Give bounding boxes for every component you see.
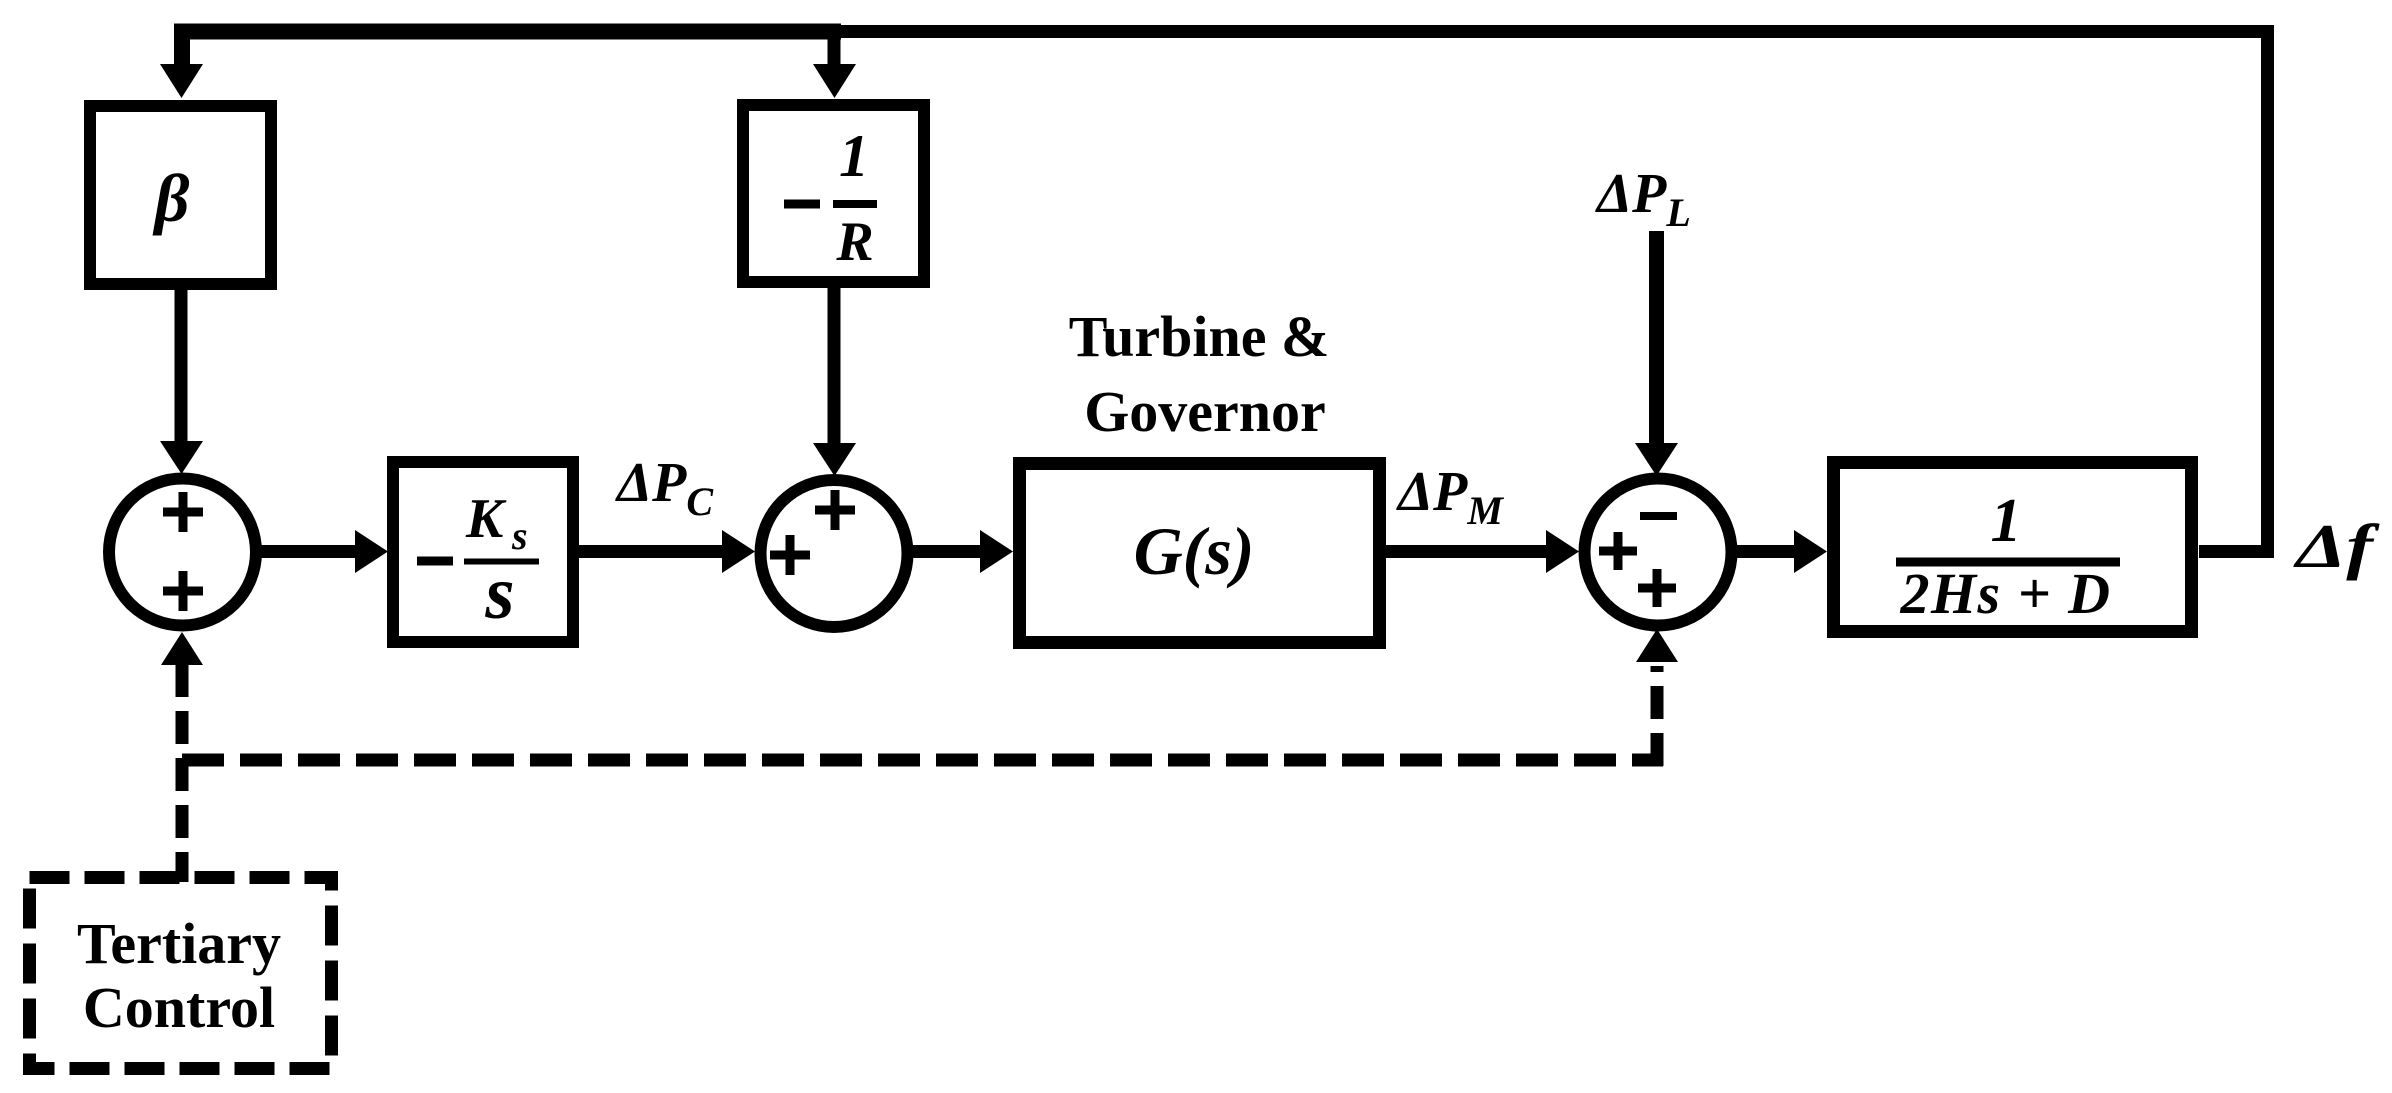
S1 plus sign top [163,492,203,532]
svg-text:R: R [835,211,873,273]
block beta [90,106,271,284]
arrowhead into S3 left [1546,530,1579,573]
arrowhead into S2 top [813,443,856,476]
arrowhead into S1 top [160,441,203,474]
S2 plus sign top [815,490,855,530]
block 1/(2Hs+D) [1834,463,2192,632]
arrowhead dashed into S1 bottom [161,632,203,665]
S3 minus sign top [1640,512,1677,520]
arrowhead into inertia block [1794,530,1827,573]
arrowhead into S3 top [1635,443,1678,476]
wire beta to summing junction S1 [175,290,188,443]
svg-text:Governor: Governor [1084,379,1326,444]
block -Ks/s [393,462,573,642]
block G(s) turbine-governor [1020,464,1380,643]
svg-text:s: s [484,552,514,635]
svg-text:K: K [465,488,507,550]
svg-text:β: β [152,160,190,236]
summing junction S2 [761,480,908,627]
wire -Ks/s to summing junction S2 [579,545,724,558]
arrowhead into beta block [160,64,203,98]
wire S3 to inertia block [1736,545,1796,558]
svg-text:2Hs + D: 2Hs + D [1899,561,2111,626]
svg-text:1: 1 [1991,487,2022,555]
S3 plus sign left [1599,532,1637,570]
wire S2 to G(s) block [912,545,982,558]
wire S1 to -Ks/s block [261,545,357,558]
arrowhead into G(s) [980,530,1013,573]
wire dashed tertiary control to S1 [176,664,189,882]
wire G(s) to summing junction S3 [1386,545,1548,558]
S2 plus sign left [770,535,810,575]
wire branch down into -1/R block [828,32,841,67]
S1 plus sign bottom [163,571,203,611]
svg-text:Δf: Δf [2292,513,2380,581]
svg-text:Turbine &: Turbine & [1069,304,1330,369]
wire feedback top line from output Delta-f to beta and -1/R [838,32,2268,552]
arrowhead into -1/R block [813,64,856,98]
svg-text:1: 1 [839,123,869,189]
wire Delta-P-L into summing junction S3 [1649,231,1664,445]
arrowhead into S2 left [722,530,755,573]
block Tertiary Control (dashed) [30,878,332,1069]
wire dashed vertical up to S3 [1651,666,1664,766]
arrowhead into -Ks/s [355,530,388,573]
svg-text:Control: Control [83,975,275,1040]
S3 plus sign bottom [1638,569,1676,607]
summing junction S3 [1585,479,1732,626]
svg-text:G(s): G(s) [1134,513,1255,589]
block -1/R [743,105,924,282]
summing junction S1 [109,479,256,626]
wire dashed horizontal tertiary branch [182,754,1663,767]
svg-text:Tertiary: Tertiary [77,911,281,976]
wire -1/R to summing junction S2 [828,288,841,445]
arrowhead dashed into S3 bottom [1636,629,1678,662]
